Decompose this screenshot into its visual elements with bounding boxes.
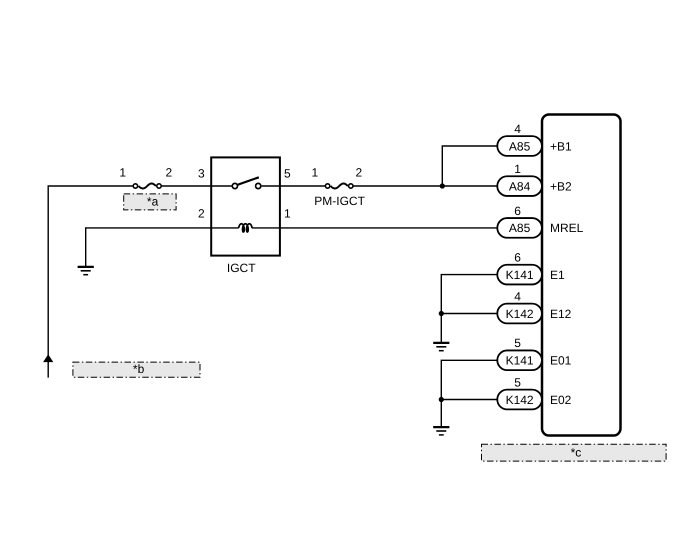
ECU box (hybrid vehicle control ECU *c) xyxy=(542,115,621,436)
wire: battery feed vertical (node to *b source) xyxy=(47,186,49,378)
svg-text:5: 5 xyxy=(514,375,521,389)
svg-text:2: 2 xyxy=(166,166,173,180)
arrow: current direction up (from *b source) xyxy=(43,354,53,362)
svg-text:A84: A84 xyxy=(509,179,531,193)
ground G3 xyxy=(433,426,449,428)
svg-text:2: 2 xyxy=(198,206,205,220)
connector K141 pin 5 (E01) xyxy=(497,350,542,370)
ground G2 xyxy=(433,342,449,344)
connector A85 pin 4 (+B1) xyxy=(497,136,542,156)
wire: connector K142 E12 to ground branch xyxy=(441,313,498,315)
svg-text:6: 6 xyxy=(514,250,521,264)
svg-text:1: 1 xyxy=(119,166,126,180)
svg-text:*c: *c xyxy=(571,446,582,460)
wire: +B node up to connector A85 +B1 xyxy=(442,146,498,186)
svg-text:3: 3 xyxy=(198,167,205,181)
connector K142 pin 5 (E02) xyxy=(497,390,542,410)
svg-text:E12: E12 xyxy=(550,307,572,321)
svg-text:5: 5 xyxy=(514,336,521,350)
wire: connector K141 E01 to ground branch xyxy=(441,360,498,427)
svg-text:IGCT: IGCT xyxy=(227,261,256,275)
junction: +B node xyxy=(440,183,445,188)
svg-text:1: 1 xyxy=(284,206,291,220)
junction: E12 node xyxy=(439,311,444,316)
svg-text:1: 1 xyxy=(311,166,318,180)
connector A85 pin 6 (MREL) xyxy=(497,218,542,238)
svg-text:E01: E01 xyxy=(550,354,572,368)
svg-text:2: 2 xyxy=(355,166,362,180)
svg-text:MREL: MREL xyxy=(550,221,584,235)
wire: relay internal, pin 2 to coil xyxy=(211,227,239,229)
label box *c (ECU name note) xyxy=(482,444,667,461)
wire: relay pin 2 to ground G1 xyxy=(86,228,212,267)
fuse *a (terminals 1-2) xyxy=(133,184,161,189)
wire: relay internal, pin 3 to switch contact xyxy=(211,185,232,187)
svg-text:K141: K141 xyxy=(506,268,534,282)
relay IGCT box xyxy=(211,157,280,255)
svg-text:+B1: +B1 xyxy=(550,139,572,153)
svg-text:E1: E1 xyxy=(550,268,565,282)
svg-text:A85: A85 xyxy=(509,139,531,153)
svg-text:+B2: +B2 xyxy=(550,179,572,193)
wire: relay pin 5 to fuse PM-IGCT pin 1 xyxy=(280,185,325,187)
wire: main feed from corner to fuse *a pin 1 xyxy=(48,185,133,187)
connector K142 pin 4 (E12) xyxy=(497,304,542,324)
svg-text:K141: K141 xyxy=(506,354,534,368)
svg-text:A85: A85 xyxy=(509,221,531,235)
junction: E02 node xyxy=(439,397,444,402)
svg-text:4: 4 xyxy=(514,122,521,136)
svg-text:6: 6 xyxy=(514,204,521,218)
wire: relay internal, coil to pin 1 xyxy=(252,227,280,229)
wire: relay pin 1 to connector A85 MREL xyxy=(280,227,498,229)
relay coil winding xyxy=(239,224,252,232)
label box *a xyxy=(124,194,176,210)
svg-text:E02: E02 xyxy=(550,393,572,407)
wire: relay internal, switch to pin 5 xyxy=(262,185,280,187)
connector A84 pin 1 (+B2) xyxy=(497,176,542,196)
label box *b (battery source note) xyxy=(73,362,200,377)
wire: fuse *a to relay IGCT pin 3 xyxy=(162,185,213,187)
ground G1 xyxy=(78,266,94,268)
svg-text:*b: *b xyxy=(133,362,145,376)
wire: connector K141 E1 to ground branch xyxy=(441,275,498,343)
wire: connector K142 E02 to ground branch xyxy=(441,399,498,401)
svg-text:5: 5 xyxy=(284,167,291,181)
svg-text:K142: K142 xyxy=(506,307,534,321)
fuse PM-IGCT (terminals 1-2) xyxy=(325,184,353,189)
svg-text:*a: *a xyxy=(147,194,159,208)
svg-text:1: 1 xyxy=(514,162,521,176)
svg-text:4: 4 xyxy=(514,289,521,303)
relay switch contacts (normally open) xyxy=(232,177,261,188)
svg-text:PM-IGCT: PM-IGCT xyxy=(314,194,365,208)
svg-text:K142: K142 xyxy=(506,393,534,407)
wire: fuse PM-IGCT to connector A84 +B2 xyxy=(353,185,498,187)
connector K141 pin 6 (E1) xyxy=(497,265,542,285)
